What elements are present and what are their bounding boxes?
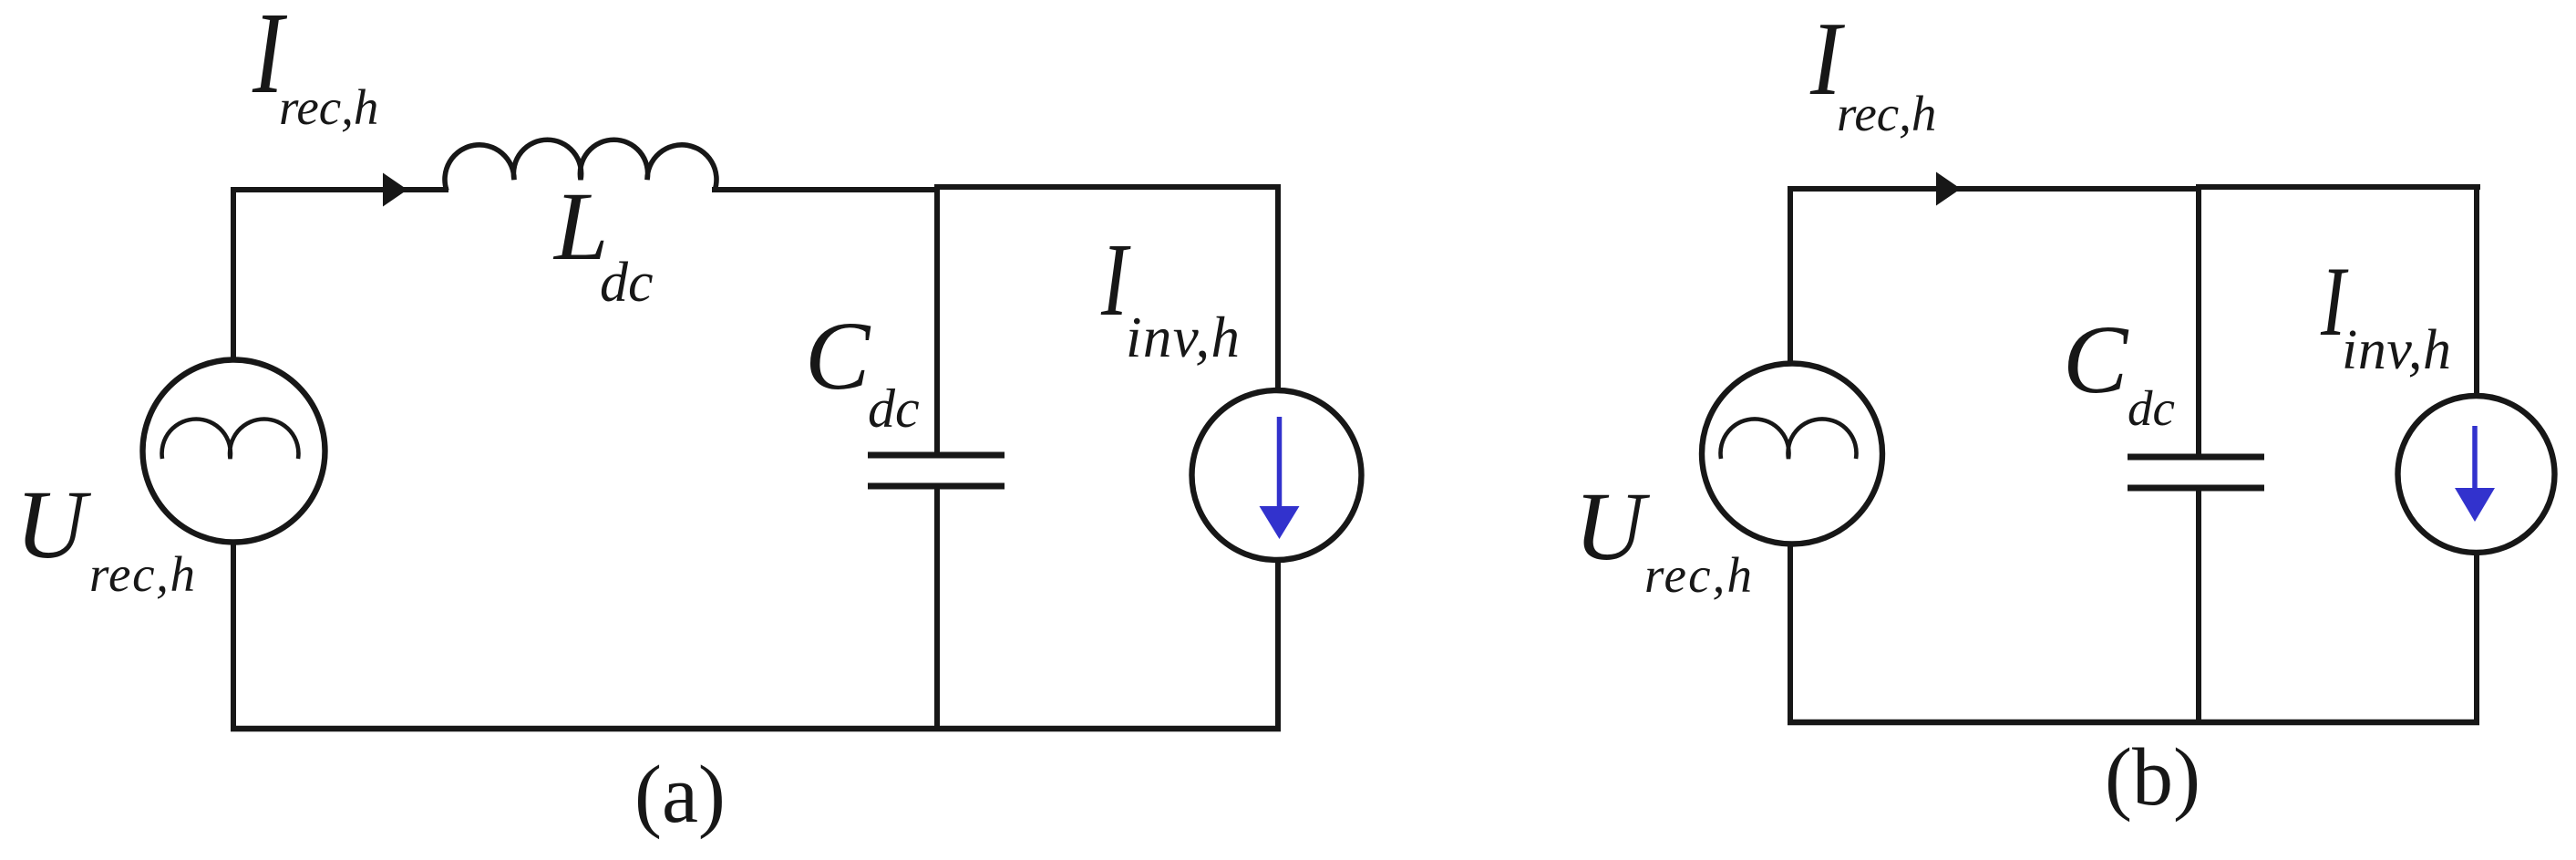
- current source I_inv,h (a) : blue arrow: [1277, 417, 1283, 508]
- svg-text:rec,h: rec,h: [89, 546, 195, 602]
- svg-text:U: U: [1574, 473, 1651, 581]
- voltage source U_rec,h (a) : m symbol: [162, 419, 299, 459]
- svg-text:rec,h: rec,h: [1644, 547, 1752, 603]
- svg-text:U: U: [15, 471, 92, 579]
- svg-text:dc: dc: [868, 378, 920, 439]
- svg-text:(b): (b): [2105, 732, 2200, 823]
- wire: (b) left vertical upper segment: [1788, 186, 1793, 363]
- svg-text:inv,h: inv,h: [1126, 306, 1240, 369]
- wire: (a) top-left horizontal: [231, 187, 448, 192]
- current arrow on wire (a) I_rec,h: [383, 173, 407, 207]
- current source I_inv,h (b) : blue arrow: [2472, 426, 2478, 490]
- wire: (b) bottom horizontal: [1788, 720, 2479, 726]
- current source I_inv,h (a) : circle: [1192, 390, 1362, 560]
- wire: (a) capacitor branch lower: [934, 486, 940, 731]
- svg-text:dc: dc: [2128, 380, 2175, 436]
- inductor L_dc: [445, 140, 716, 191]
- svg-text:C: C: [805, 303, 871, 410]
- current source I_inv,h (b) : circle: [2398, 396, 2555, 553]
- svg-text:C: C: [2063, 306, 2129, 414]
- voltage source U_rec,h (b) : circle: [1702, 364, 1882, 544]
- wire: (a) top-right horizontal: [934, 184, 1281, 190]
- wire: (a) bottom horizontal: [231, 726, 1281, 732]
- svg-text:inv,h: inv,h: [2342, 319, 2451, 381]
- voltage source U_rec,h (b) : m symbol: [1721, 419, 1857, 459]
- wire: (a) left vertical lower segment: [231, 544, 236, 731]
- wire: (b) capacitor branch lower: [2196, 488, 2201, 725]
- svg-text:rec,h: rec,h: [279, 79, 378, 135]
- voltage source U_rec,h (a) : circle: [143, 360, 325, 543]
- wire: (a) left vertical upper segment: [231, 187, 236, 360]
- svg-text:dc: dc: [600, 252, 654, 314]
- wire: (a) right vertical lower: [1275, 560, 1281, 731]
- capacitor C_dc (a) : plates: [868, 452, 1005, 459]
- wire: (b) top-left horizontal: [1788, 186, 2201, 192]
- wire: (b) top-right horizontal: [2196, 184, 2480, 190]
- wire: (a) top-middle horizontal: [712, 187, 940, 192]
- svg-text:(a): (a): [634, 750, 726, 840]
- wire: (b) right vertical lower: [2474, 554, 2479, 725]
- capacitor C_dc (b) : plates: [2128, 454, 2264, 461]
- wire: (b) left vertical lower segment: [1788, 544, 1793, 725]
- current arrow on wire (b) I_rec,h: [1936, 172, 1961, 206]
- svg-text:rec,h: rec,h: [1837, 86, 1936, 141]
- wire: (a) capacitor branch upper: [934, 185, 940, 455]
- wire: (b) right vertical upper: [2474, 184, 2479, 395]
- wire: (b) capacitor branch upper: [2196, 187, 2201, 457]
- wire: (a) right vertical upper: [1275, 184, 1281, 389]
